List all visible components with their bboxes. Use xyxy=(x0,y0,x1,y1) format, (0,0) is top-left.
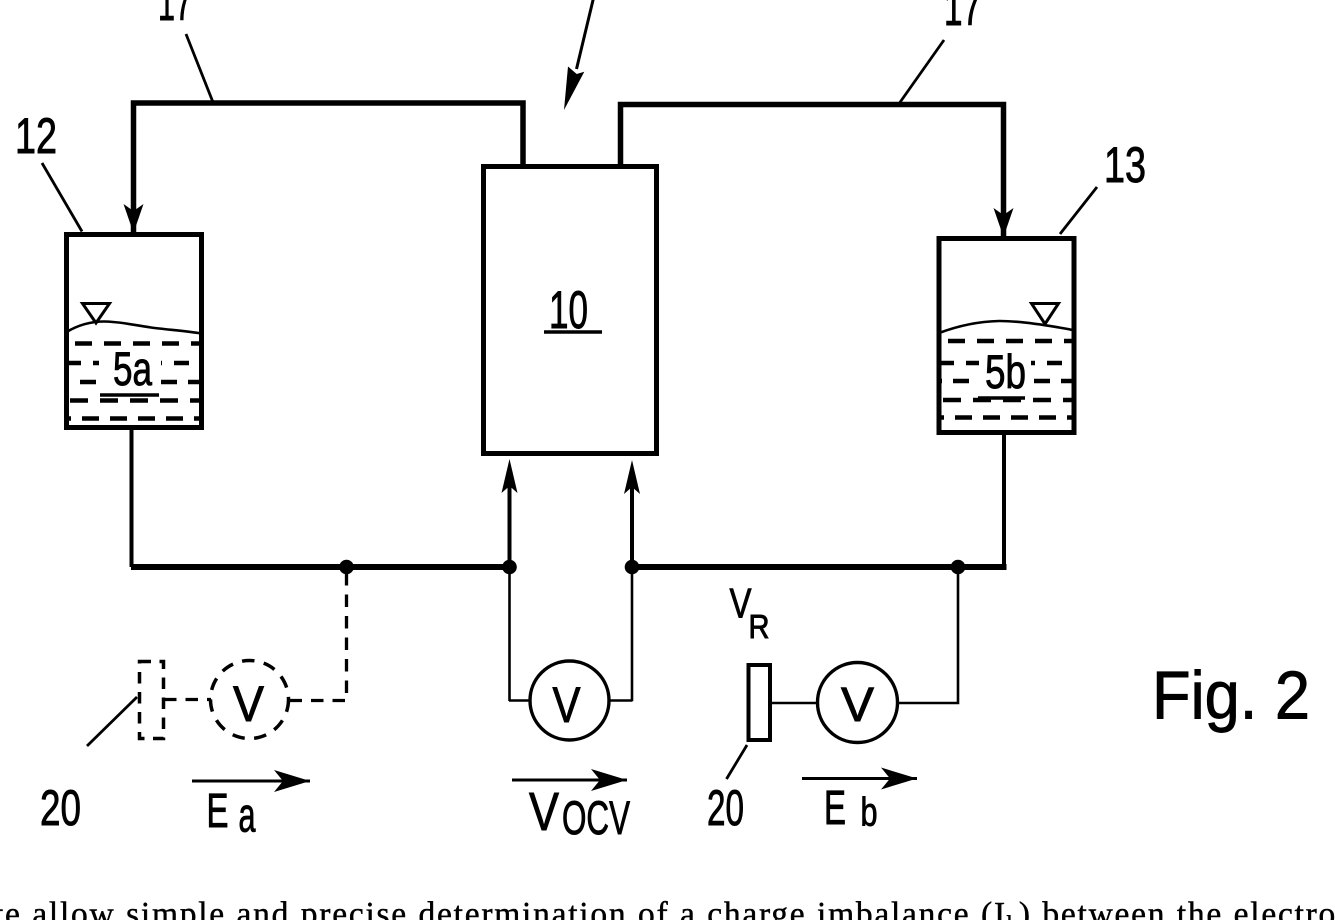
junction dot at right VOCV lead xyxy=(625,560,640,575)
leader line for 13 xyxy=(1060,187,1097,234)
svg-text:OCV: OCV xyxy=(562,791,630,844)
wire: tank 13 bottom to bus xyxy=(1002,433,1006,567)
voltmeter Ea (dashed circle) xyxy=(211,661,289,739)
wire: tank 12 bottom to bus xyxy=(130,428,134,567)
tank 12 liquid surface xyxy=(67,322,202,334)
svg-text:a: a xyxy=(239,790,256,843)
svg-text:V: V xyxy=(233,676,265,732)
tank 12 level triangle xyxy=(83,304,110,324)
leader line for right 17 xyxy=(900,40,945,103)
wire: left bus segment xyxy=(131,564,509,570)
leader line for left 20 xyxy=(87,697,137,746)
wire: right bus segment xyxy=(632,564,1007,570)
svg-text:E: E xyxy=(207,785,229,838)
svg-text:E: E xyxy=(824,782,846,835)
tank 13 body xyxy=(939,239,1074,433)
svg-text:20: 20 xyxy=(707,780,744,836)
arrow Eb xyxy=(802,777,917,780)
leader line for 12 xyxy=(42,163,82,232)
junction dot at dashed branch xyxy=(339,560,354,575)
tank 12 liquid dashes xyxy=(66,344,201,419)
wire: right stub to VOCV meter xyxy=(609,699,633,702)
wire: left VOCV lead with arrow into cell bottom xyxy=(508,480,512,567)
svg-text:R: R xyxy=(749,608,770,645)
svg-text:V: V xyxy=(529,782,559,842)
svg-text:5b: 5b xyxy=(985,345,1026,398)
underline of 5a xyxy=(100,393,159,396)
svg-text:17: 17 xyxy=(158,0,192,31)
cell 10 body xyxy=(484,167,657,454)
svg-text:17: 17 xyxy=(944,0,981,36)
wire: resistor to Eb voltmeter xyxy=(771,702,818,705)
caption text (cropped at bottom) xyxy=(0,900,1335,920)
junction dot at left VOCV lead xyxy=(502,560,517,575)
svg-text:Fig. 2: Fig. 2 xyxy=(1152,658,1310,734)
arrow into tank 13 top xyxy=(994,208,1014,237)
dashed wire: dashed rect to dashed voltmeter xyxy=(164,698,211,701)
svg-text:5a: 5a xyxy=(113,342,153,395)
underline of 5b xyxy=(978,396,1025,399)
dashed wire: bus junction down to dashed voltmeter xyxy=(290,573,347,701)
wire: right VOCV lead with arrow into cell bottom xyxy=(630,481,634,567)
svg-text:b: b xyxy=(861,791,878,835)
voltmeter VOCV (solid circle) xyxy=(530,661,609,740)
wire: top-left horizontal pipe from tank 12 to cell 10 xyxy=(134,103,524,233)
resistor 20 (shunt rectangle) xyxy=(749,665,771,740)
arrow into tank 12 top xyxy=(124,204,144,233)
wire: top-right horizontal pipe from cell 10 to tank 13 xyxy=(621,105,1004,238)
sensor 20 (dashed rectangle) xyxy=(140,662,164,739)
voltmeter Eb (solid circle) xyxy=(818,663,898,743)
tank 12 body xyxy=(67,235,202,428)
tank 13 level triangle xyxy=(1032,304,1059,325)
leader line for right 20 xyxy=(727,745,748,779)
junction dot at Eb branch xyxy=(951,560,966,575)
svg-text:20: 20 xyxy=(40,780,81,836)
leader arrow (top center, from cropped label) xyxy=(577,0,595,69)
underline of 10 xyxy=(544,330,602,333)
wire: Eb voltmeter to bus junction xyxy=(898,570,958,703)
svg-text:V: V xyxy=(553,677,582,733)
tank 13 liquid surface xyxy=(939,321,1075,333)
arrow Ea xyxy=(192,780,310,783)
wire: left stub to VOCV meter xyxy=(509,699,530,702)
svg-text:12: 12 xyxy=(15,108,57,164)
svg-text:V: V xyxy=(841,679,874,732)
arrow VOCV xyxy=(512,779,627,782)
leader line for left 17 xyxy=(186,34,213,101)
svg-text:13: 13 xyxy=(1104,137,1146,193)
tank 13 liquid dashes xyxy=(939,341,1074,418)
